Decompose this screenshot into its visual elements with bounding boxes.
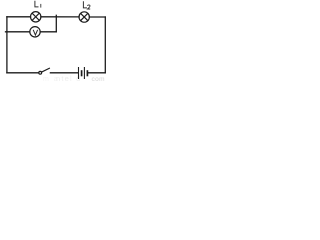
- voltmeter V circle: [30, 27, 40, 37]
- wire voltmeter left: [6, 31, 30, 33]
- battery: [79, 67, 88, 79]
- label L2 letter L: [83, 1, 87, 8]
- label L1 subscript 1: [40, 4, 42, 8]
- lamp L1: [31, 12, 41, 22]
- wire switch to battery: [50, 72, 77, 74]
- lamp L2 cross stroke 2: [81, 13, 88, 20]
- battery long plate 2: [83, 67, 85, 79]
- lamp L1 cross stroke 2: [32, 13, 39, 20]
- wire left vertical: [6, 17, 8, 73]
- svg-text:com: com: [92, 76, 105, 82]
- lamp L2 circle: [79, 12, 89, 22]
- wire top left segment: [7, 16, 31, 18]
- wire battery to corner: [88, 72, 105, 74]
- label L1: [35, 1, 41, 8]
- battery short plate 1: [81, 70, 83, 76]
- wire bottom left: [7, 72, 39, 74]
- battery long plate 1: [78, 67, 80, 79]
- lamp L2 cross stroke 1: [81, 13, 88, 20]
- wire top right segment: [89, 16, 105, 18]
- label L2 subscript 2: [88, 5, 91, 9]
- lamp L2: [79, 12, 89, 22]
- watermark text: [43, 74, 105, 83]
- label L2: [83, 1, 90, 9]
- wire between L1 and L2: [41, 16, 79, 18]
- node junction tick: [55, 15, 57, 32]
- lamp L1 circle: [31, 12, 41, 22]
- wire voltmeter right: [40, 31, 56, 33]
- wire right vertical: [104, 17, 106, 73]
- voltmeter V glyph: [33, 30, 37, 35]
- svg-text:ntel d: ntel d: [56, 74, 82, 82]
- switch S: [39, 68, 50, 74]
- lamp L1 cross stroke 1: [32, 13, 39, 20]
- switch lever: [42, 68, 50, 72]
- battery short plate 2: [86, 70, 88, 76]
- label L1 letter L: [35, 1, 39, 7]
- switch pivot circle: [39, 71, 42, 74]
